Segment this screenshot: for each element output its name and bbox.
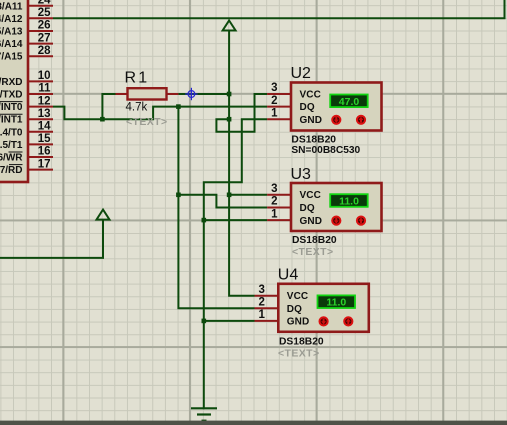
- svg-text:2: 2: [258, 297, 264, 309]
- svg-text:0/RXD: 0/RXD: [0, 77, 23, 88]
- MCU pin 25: [0, 7, 53, 25]
- svg-text:VCC: VCC: [300, 190, 321, 201]
- svg-text:25: 25: [38, 7, 51, 19]
- U4 pin 2 DQ: [255, 297, 303, 315]
- window bottom edge strip: [0, 421, 507, 425]
- wire left power arrow net: [0, 220, 103, 258]
- U2 LCD display 47.0: [330, 95, 368, 108]
- resistor R1: [116, 88, 179, 99]
- wire VCC jog to U2 pin3: [216, 94, 267, 132]
- svg-text:1: 1: [271, 208, 278, 220]
- wire GND branch to U3 pin1: [204, 219, 267, 221]
- svg-text:R1: R1: [125, 69, 150, 86]
- svg-text:<TEXT>: <TEXT>: [292, 246, 334, 258]
- wire GND branch to U4 pin1: [204, 320, 255, 322]
- MCU pin 28: [0, 45, 53, 63]
- svg-text:47.0: 47.0: [339, 96, 360, 108]
- svg-text:VCC: VCC: [287, 291, 308, 302]
- U4 up button: [344, 317, 352, 325]
- svg-text:DQ: DQ: [287, 304, 302, 315]
- svg-text:1: 1: [271, 107, 278, 119]
- MCU U1 body (clipped at left edge): [0, 0, 28, 182]
- svg-text:1/TXD: 1/TXD: [0, 90, 23, 101]
- MCU pin 16 WR: [0, 146, 53, 164]
- U3 LCD display 11.0: [330, 194, 368, 207]
- svg-text:DS18B20: DS18B20: [291, 134, 336, 145]
- svg-text:3.7/RD: 3.7/RD: [0, 165, 23, 176]
- MCU pin 15: [0, 133, 53, 151]
- wire VCC rail from power arrow down to U4 pin3: [229, 31, 254, 296]
- svg-text:DS18B20: DS18B20: [292, 235, 337, 246]
- svg-text:U2: U2: [291, 65, 312, 82]
- MCU pin 27: [0, 32, 53, 50]
- U4 LCD display 11.0: [318, 295, 356, 308]
- svg-text:2: 2: [271, 196, 277, 208]
- svg-text:12: 12: [38, 95, 51, 107]
- wire P2.4/A12 net (pin25 to top-right): [53, 0, 505, 18]
- svg-text:24: 24: [38, 0, 51, 7]
- svg-text:17: 17: [38, 158, 51, 170]
- U4 down button: [320, 317, 328, 325]
- svg-text:GND: GND: [300, 216, 323, 227]
- U2 pin 1 GND: [267, 107, 322, 126]
- svg-text:11.0: 11.0: [326, 297, 346, 309]
- junction dot R1 left / DQ bus: [100, 117, 105, 122]
- wire GND net U2 pin1 down to ground rail: [204, 119, 267, 409]
- U2 pin 2 DQ: [267, 95, 315, 113]
- wire R1 right to VCC rail: [178, 93, 229, 95]
- power symbol (top, VCC rail): [223, 21, 236, 31]
- svg-text:DQ: DQ: [300, 102, 315, 113]
- svg-text:DQ: DQ: [300, 203, 315, 214]
- svg-text:3/INT1: 3/INT1: [0, 115, 23, 126]
- svg-text:11: 11: [38, 83, 51, 95]
- wire DQ net from pin12/INT0: [53, 107, 267, 120]
- svg-text:VCC: VCC: [300, 89, 321, 100]
- junction dot VCC rail / U2 jog: [227, 117, 232, 122]
- U3 pin 3 VCC: [267, 183, 321, 201]
- svg-text:.6/A14: .6/A14: [0, 39, 23, 50]
- svg-text:10: 10: [38, 70, 51, 82]
- svg-text:3: 3: [271, 183, 277, 195]
- svg-text:U3: U3: [291, 166, 312, 183]
- wire R1 left lead to DQ bus: [102, 94, 115, 119]
- MCU pin 11: [0, 83, 53, 101]
- U4 pin 1 GND: [255, 309, 310, 328]
- MCU pin 13 INT1: [0, 108, 53, 126]
- wire VCC branch to U3 pin3: [229, 194, 267, 196]
- MCU pin 10: [0, 70, 53, 88]
- MCU pin 14: [0, 121, 53, 139]
- svg-text:GND: GND: [300, 115, 323, 126]
- svg-text:14: 14: [38, 121, 51, 133]
- svg-text:4.7k: 4.7k: [126, 101, 148, 113]
- MCU pin 12 INT0: [0, 95, 53, 113]
- svg-text:3.5/T1: 3.5/T1: [0, 140, 23, 151]
- U3 up button: [357, 217, 365, 225]
- svg-text:DS18B20: DS18B20: [279, 337, 324, 348]
- svg-text:26: 26: [38, 20, 51, 32]
- svg-text:2: 2: [271, 95, 277, 107]
- svg-text:27: 27: [38, 32, 51, 44]
- U4 pin 3 VCC: [255, 284, 309, 302]
- wire DQ vertical rail to U3/U4: [178, 106, 267, 309]
- MCU pin 17 RD: [0, 158, 53, 176]
- junction dot VCC rail / U3 branch: [227, 193, 232, 198]
- svg-text:1: 1: [258, 309, 265, 321]
- U3 pin 1 GND: [267, 208, 322, 227]
- op U4 DS18B20 box: [278, 284, 369, 332]
- svg-text:.5/A13: .5/A13: [0, 27, 23, 38]
- junction dot DQ rail / U2 DQ wire: [176, 104, 181, 109]
- node marker (blue crosshair) on VCC wire: [185, 88, 197, 100]
- svg-text:.4/A12: .4/A12: [0, 14, 23, 25]
- op U2 DS18B20 box: [291, 83, 382, 131]
- op U3 DS18B20 box: [291, 183, 382, 231]
- junction dot DQ rail / U3 branch: [176, 193, 181, 198]
- junction dot VCC rail / R1: [227, 92, 232, 97]
- svg-text:<TEXT>: <TEXT>: [126, 116, 168, 128]
- U2 pin 3 VCC: [267, 82, 321, 100]
- svg-text:11.0: 11.0: [339, 196, 359, 208]
- svg-text:U4: U4: [278, 267, 299, 284]
- svg-text:<TEXT>: <TEXT>: [278, 348, 320, 360]
- svg-text:15: 15: [38, 133, 51, 145]
- power symbol (left): [97, 210, 110, 220]
- svg-text:3.6/WR: 3.6/WR: [0, 153, 23, 164]
- svg-text:GND: GND: [287, 317, 310, 328]
- svg-text:3.4/T0: 3.4/T0: [0, 127, 23, 138]
- junction dot GND rail / U3 branch: [202, 218, 207, 223]
- MCU pin 26: [0, 20, 53, 38]
- svg-text:.7/A15: .7/A15: [0, 52, 23, 63]
- junction dot GND rail / U4 branch: [202, 319, 207, 324]
- svg-text:13: 13: [38, 108, 51, 120]
- svg-text:16: 16: [38, 146, 51, 158]
- svg-text:3: 3: [258, 284, 264, 296]
- U2 down button: [332, 116, 340, 124]
- ground symbol: [191, 408, 217, 420]
- svg-text:2/INT0: 2/INT0: [0, 102, 23, 113]
- svg-text:3: 3: [271, 82, 277, 94]
- svg-text:SN=00B8C530: SN=00B8C530: [291, 145, 360, 156]
- U3 pin 2 DQ: [267, 196, 315, 214]
- svg-text:.3/A11: .3/A11: [0, 1, 23, 12]
- svg-text:28: 28: [38, 45, 51, 57]
- U3 down button: [332, 217, 340, 225]
- U2 up button: [357, 116, 365, 124]
- MCU pin 24: [0, 0, 53, 12]
